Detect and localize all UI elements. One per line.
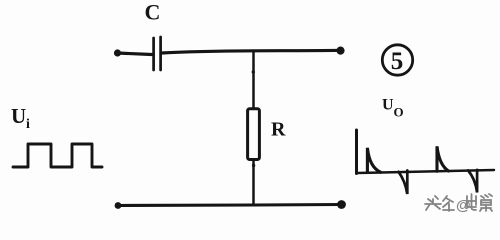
glyph 条 — [443, 196, 454, 211]
node: input bottom terminal — [115, 202, 122, 209]
node: input top terminal — [114, 49, 121, 56]
Uo positive spike 1 — [367, 148, 380, 173]
svg-text:5: 5 — [391, 48, 404, 75]
wire: bottom rail — [118, 205, 342, 206]
svg-text:C: C — [145, 0, 161, 25]
junction blob on vertical wire — [252, 70, 255, 73]
watermark 头条@电巢 — [425, 194, 492, 211]
Uo positive spike 2 — [437, 146, 449, 171]
junction blob below resistor — [252, 164, 255, 167]
svg-text:@: @ — [456, 197, 471, 214]
svg-text:R: R — [271, 119, 286, 141]
node: output top terminal — [336, 47, 344, 55]
svg-text:U: U — [11, 104, 26, 128]
svg-text:O: O — [394, 105, 404, 120]
svg-text:i: i — [26, 117, 30, 132]
glyph 巢 — [480, 194, 492, 211]
resistor R body — [248, 109, 260, 160]
node: output bottom terminal — [337, 200, 346, 209]
glyph 头 — [425, 196, 441, 210]
Uo negative spike 1 — [399, 171, 408, 195]
wire: input terminal to capacitor left plate — [118, 53, 152, 55]
wire: resistor bottom to bottom rail — [252, 160, 255, 206]
waveform: Ui square wave — [13, 144, 102, 167]
wire: capacitor right plate to output terminal (top rail) — [162, 50, 340, 53]
symbol: circled figure number 5 — [382, 45, 412, 75]
Uo axis vertical line — [355, 130, 358, 174]
glyph 电 — [467, 194, 476, 210]
svg-text:U: U — [382, 97, 394, 114]
Uo baseline wire — [357, 170, 495, 173]
capacitor C plates — [154, 37, 161, 70]
wire: top rail junction down to resistor top — [252, 52, 255, 109]
Uo negative spike 2 — [468, 170, 477, 193]
